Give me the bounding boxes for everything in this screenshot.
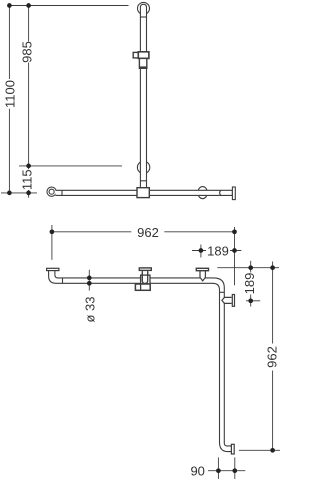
svg-text:189: 189: [207, 243, 229, 258]
dot 962r top: [270, 265, 275, 270]
svg-text:985: 985: [20, 41, 35, 63]
plan slider stem: [142, 271, 147, 276]
vertical shower rail tube: [140, 4, 146, 188]
ext line mid (rosette level): [19, 165, 122, 167]
plan rail cross-section U: [142, 272, 147, 283]
rosette mid: [137, 161, 149, 173]
dot 985 bottom: [26, 164, 31, 169]
plan side flange plate: [232, 295, 234, 307]
dot 962 top right: [232, 229, 237, 234]
plan slider body below: [135, 284, 150, 290]
svg-text:115: 115: [20, 169, 35, 190]
dot 189h left: [199, 248, 204, 253]
rail joint line top: [140, 16, 146, 18]
slider lower block: [139, 58, 146, 68]
dot 90 right: [232, 468, 237, 473]
dot 962 top left: [50, 229, 55, 234]
slider tab: [133, 52, 138, 58]
svg-text:ø 33: ø 33: [83, 296, 98, 322]
dim 189 horizontal: line: [192, 250, 241, 252]
plan joint line vertical leg: [220, 291, 225, 293]
svg-text:1100: 1100: [2, 80, 17, 108]
dim 962 right: line: [272, 262, 274, 451]
horizontal grab bar: [56, 190, 233, 195]
dim 90: line: [208, 470, 245, 472]
dot 33 bottom: [87, 281, 92, 286]
rail joint line bottom: [140, 180, 146, 182]
dot 962r bottom: [270, 448, 275, 453]
dia 33 leader: [88, 270, 90, 291]
svg-text:962: 962: [264, 346, 279, 368]
wall flange left inner: [49, 189, 54, 194]
dim 189 vertical: bottom anchor line: [246, 300, 260, 302]
plan left flange plate: [47, 268, 59, 270]
plan slider flange plate: [139, 268, 151, 271]
plan slider clamp: [141, 275, 150, 284]
dot 115 bottom: [26, 191, 31, 196]
plan tube inner edge: [55, 271, 232, 446]
dim 189 horizontal: tick: [200, 245, 202, 258]
dot 33 top: [87, 276, 92, 281]
dim 962 right: bottom anchor line: [239, 449, 280, 451]
wall rosette top: [138, 2, 150, 14]
dim 189 vertical: line: [250, 261, 252, 307]
dot 985 top: [26, 3, 31, 8]
svg-text:189: 189: [242, 273, 257, 295]
dot 1100 bottom: [7, 191, 12, 196]
dim 90: tick right: [234, 457, 236, 479]
svg-text:90: 90: [190, 463, 204, 478]
dim 962 top: left ext: [51, 225, 53, 260]
bar joint line: [61, 190, 63, 195]
dim 962 top: right ext: [234, 227, 236, 285]
plan slider body divider: [140, 284, 142, 290]
junction block: [137, 188, 149, 198]
wall flange left outer: [47, 187, 56, 196]
dim line 1100: [8, 6, 10, 193]
plan bottom flange plate: [231, 444, 234, 454]
rosette on bar (ellipse): [198, 187, 208, 199]
end cap right: [232, 187, 235, 200]
slider lower block thick bottom: [139, 66, 146, 68]
dim line 115: [28, 166, 30, 198]
plan tube joint line left: [62, 278, 64, 283]
plan tube outer edge: [49, 271, 232, 452]
bar joint curve: [220, 190, 221, 195]
ext line top: [8, 5, 129, 7]
dim 189 vertical: top anchor line: [217, 267, 279, 269]
dim 962 top: line: [52, 231, 235, 233]
dot 189v top: [248, 265, 253, 270]
dot 90 left: [216, 468, 221, 473]
dim line 985: [28, 6, 30, 166]
dot 1100 top: [7, 3, 12, 8]
ext line bottom (bar axis): [1, 192, 37, 194]
plan tube fill: [49, 271, 232, 452]
dim 90: tick left: [217, 457, 219, 479]
plan right flange plate: [196, 268, 208, 270]
plan right flange stem+cone: [200, 271, 205, 281]
plan side flange stem+cone: [222, 297, 232, 303]
dot 189v bottom: [248, 298, 253, 303]
slider main block: [138, 52, 149, 59]
dot 189h right: [232, 248, 237, 253]
svg-text:962: 962: [137, 225, 159, 240]
